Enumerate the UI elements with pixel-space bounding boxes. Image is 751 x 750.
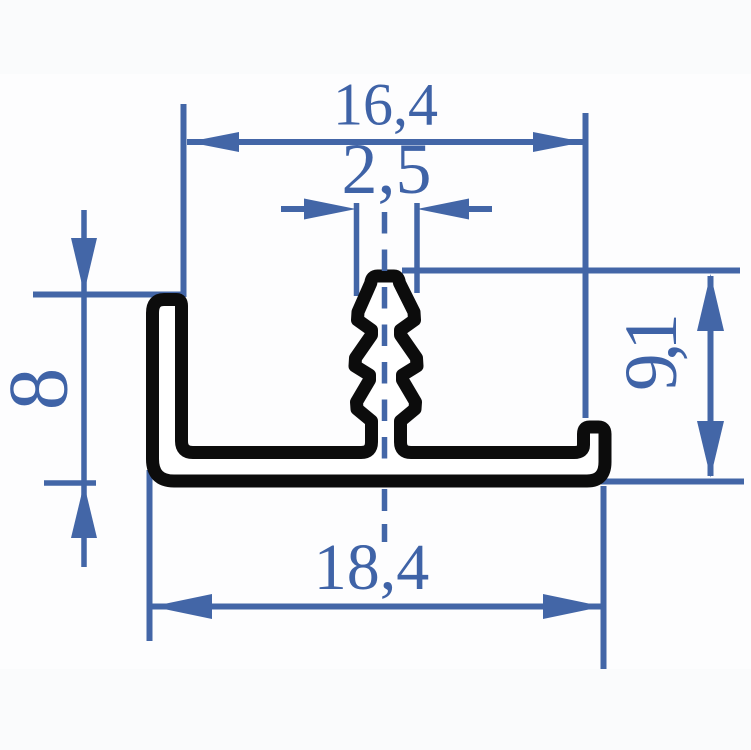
- extension line, top of wall for dimension 8: [33, 292, 186, 298]
- svg-text:16,4: 16,4: [333, 72, 438, 138]
- centerline (dashed), lower segment: [382, 489, 388, 542]
- background shade top: [0, 0, 751, 74]
- dimension line 2,5, outside arrows: [281, 199, 492, 220]
- dimension line 8 with outside arrows: [71, 210, 97, 567]
- extension tick, left of dimension 2,5: [354, 203, 360, 296]
- dimension line 9,1 with arrowheads: [697, 274, 724, 478]
- aluminium profile cross-section outline: [153, 276, 606, 481]
- extension line, left of dimension 16,4: [181, 104, 187, 297]
- svg-text:9,1: 9,1: [610, 318, 693, 391]
- extension tick, right of dimension 2,5: [414, 203, 420, 293]
- svg-text:18,4: 18,4: [314, 531, 430, 604]
- dimension line 16,4 with arrowheads: [187, 132, 585, 152]
- svg-text:8: 8: [0, 368, 86, 411]
- svg-text:2,5: 2,5: [342, 129, 432, 209]
- extension tick, bottom for dimension 8: [44, 480, 96, 486]
- extension line, right of dimension 18,4: [601, 486, 607, 669]
- dimension line 18,4 with arrowheads: [152, 594, 603, 619]
- extension line, left of dimension 18,4: [147, 470, 153, 641]
- extension line, top reference of dimension 9,1: [402, 268, 740, 274]
- extension line, right of dimension 16,4: [583, 113, 589, 418]
- centerline (dashed), upper segment: [382, 212, 388, 462]
- extension line, bottom reference of dimension 9,1: [598, 479, 744, 485]
- background shade bottom: [0, 669, 751, 750]
